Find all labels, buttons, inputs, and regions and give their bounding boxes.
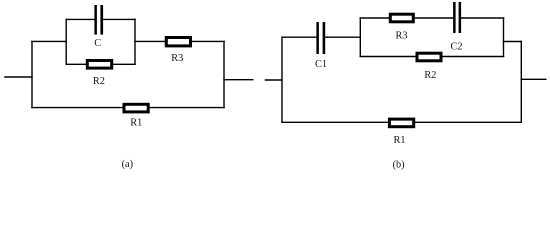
wire: (a) right vertical bbox=[223, 41, 225, 107]
wire: (a) box to R3 bbox=[135, 40, 165, 42]
capacitor C2 (plates) bbox=[453, 2, 461, 33]
wire: (b) box top edge left segment bbox=[360, 17, 389, 19]
svg-text:R1: R1 bbox=[393, 135, 405, 146]
wire: (a) box top edge right segment bbox=[103, 18, 135, 20]
wire: (a) top branch into C||R2 box bbox=[32, 40, 66, 42]
wire: (b) left vertical bbox=[281, 37, 283, 122]
svg-text:(a): (a) bbox=[122, 159, 133, 170]
wire: (b) box to right corner bbox=[504, 41, 522, 43]
wire: (b) top branch to C1 bbox=[282, 36, 316, 38]
wire: (b) bottom left segment bbox=[282, 121, 388, 123]
wire: (b) bottom right segment bbox=[415, 121, 521, 123]
wire: (a) left external lead bbox=[5, 76, 32, 78]
wire: (a) right external lead bbox=[224, 79, 253, 81]
wire: (b) box right edge bbox=[503, 18, 505, 57]
wire: (b) box top edge right segment bbox=[461, 17, 503, 19]
resistor R3 (a) bbox=[166, 38, 190, 46]
wire: (b) box top edge middle segment bbox=[415, 17, 453, 19]
wire: (a) box bottom edge right segment bbox=[113, 63, 135, 65]
wire: (b) C1 to box bbox=[325, 36, 360, 38]
capacitor C1 (plates) bbox=[316, 22, 325, 54]
wire: (b) left external lead bbox=[266, 79, 283, 81]
resistor R1 (b) bbox=[389, 119, 413, 127]
resistor R2 (a) bbox=[87, 61, 111, 69]
wire: (a) box top edge left segment bbox=[66, 18, 94, 20]
svg-text:C: C bbox=[94, 38, 101, 49]
wire: (b) right vertical bbox=[520, 42, 522, 123]
capacitor C (plates) bbox=[94, 5, 103, 35]
resistor R1 (a) bbox=[124, 104, 148, 112]
wire: (b) box left edge bbox=[359, 18, 361, 57]
svg-text:R3: R3 bbox=[171, 53, 183, 64]
svg-text:C2: C2 bbox=[450, 41, 462, 52]
wire: (a) bottom left segment bbox=[32, 107, 123, 109]
wire: (b) right external lead bbox=[521, 78, 546, 80]
resistor R2 (b) bbox=[417, 53, 441, 61]
wire: (a) left vertical bbox=[31, 41, 33, 107]
svg-text:R1: R1 bbox=[130, 118, 142, 129]
svg-text:R3: R3 bbox=[395, 31, 407, 42]
resistor R3 (b) bbox=[390, 14, 413, 22]
svg-text:R2: R2 bbox=[93, 76, 105, 87]
wire: (a) box left edge bbox=[65, 19, 67, 64]
wire: (a) box bottom edge left segment bbox=[66, 63, 86, 65]
svg-text:R2: R2 bbox=[424, 70, 436, 81]
svg-text:C1: C1 bbox=[315, 59, 327, 70]
wire: (a) bottom right segment bbox=[150, 107, 224, 109]
wire: (b) box bottom edge right segment bbox=[443, 56, 504, 58]
wire: (b) box bottom edge left segment bbox=[360, 56, 415, 58]
svg-text:(b): (b) bbox=[393, 160, 405, 171]
wire: (a) R3 to right corner bbox=[192, 40, 224, 42]
wire: (a) box right edge bbox=[134, 19, 136, 64]
